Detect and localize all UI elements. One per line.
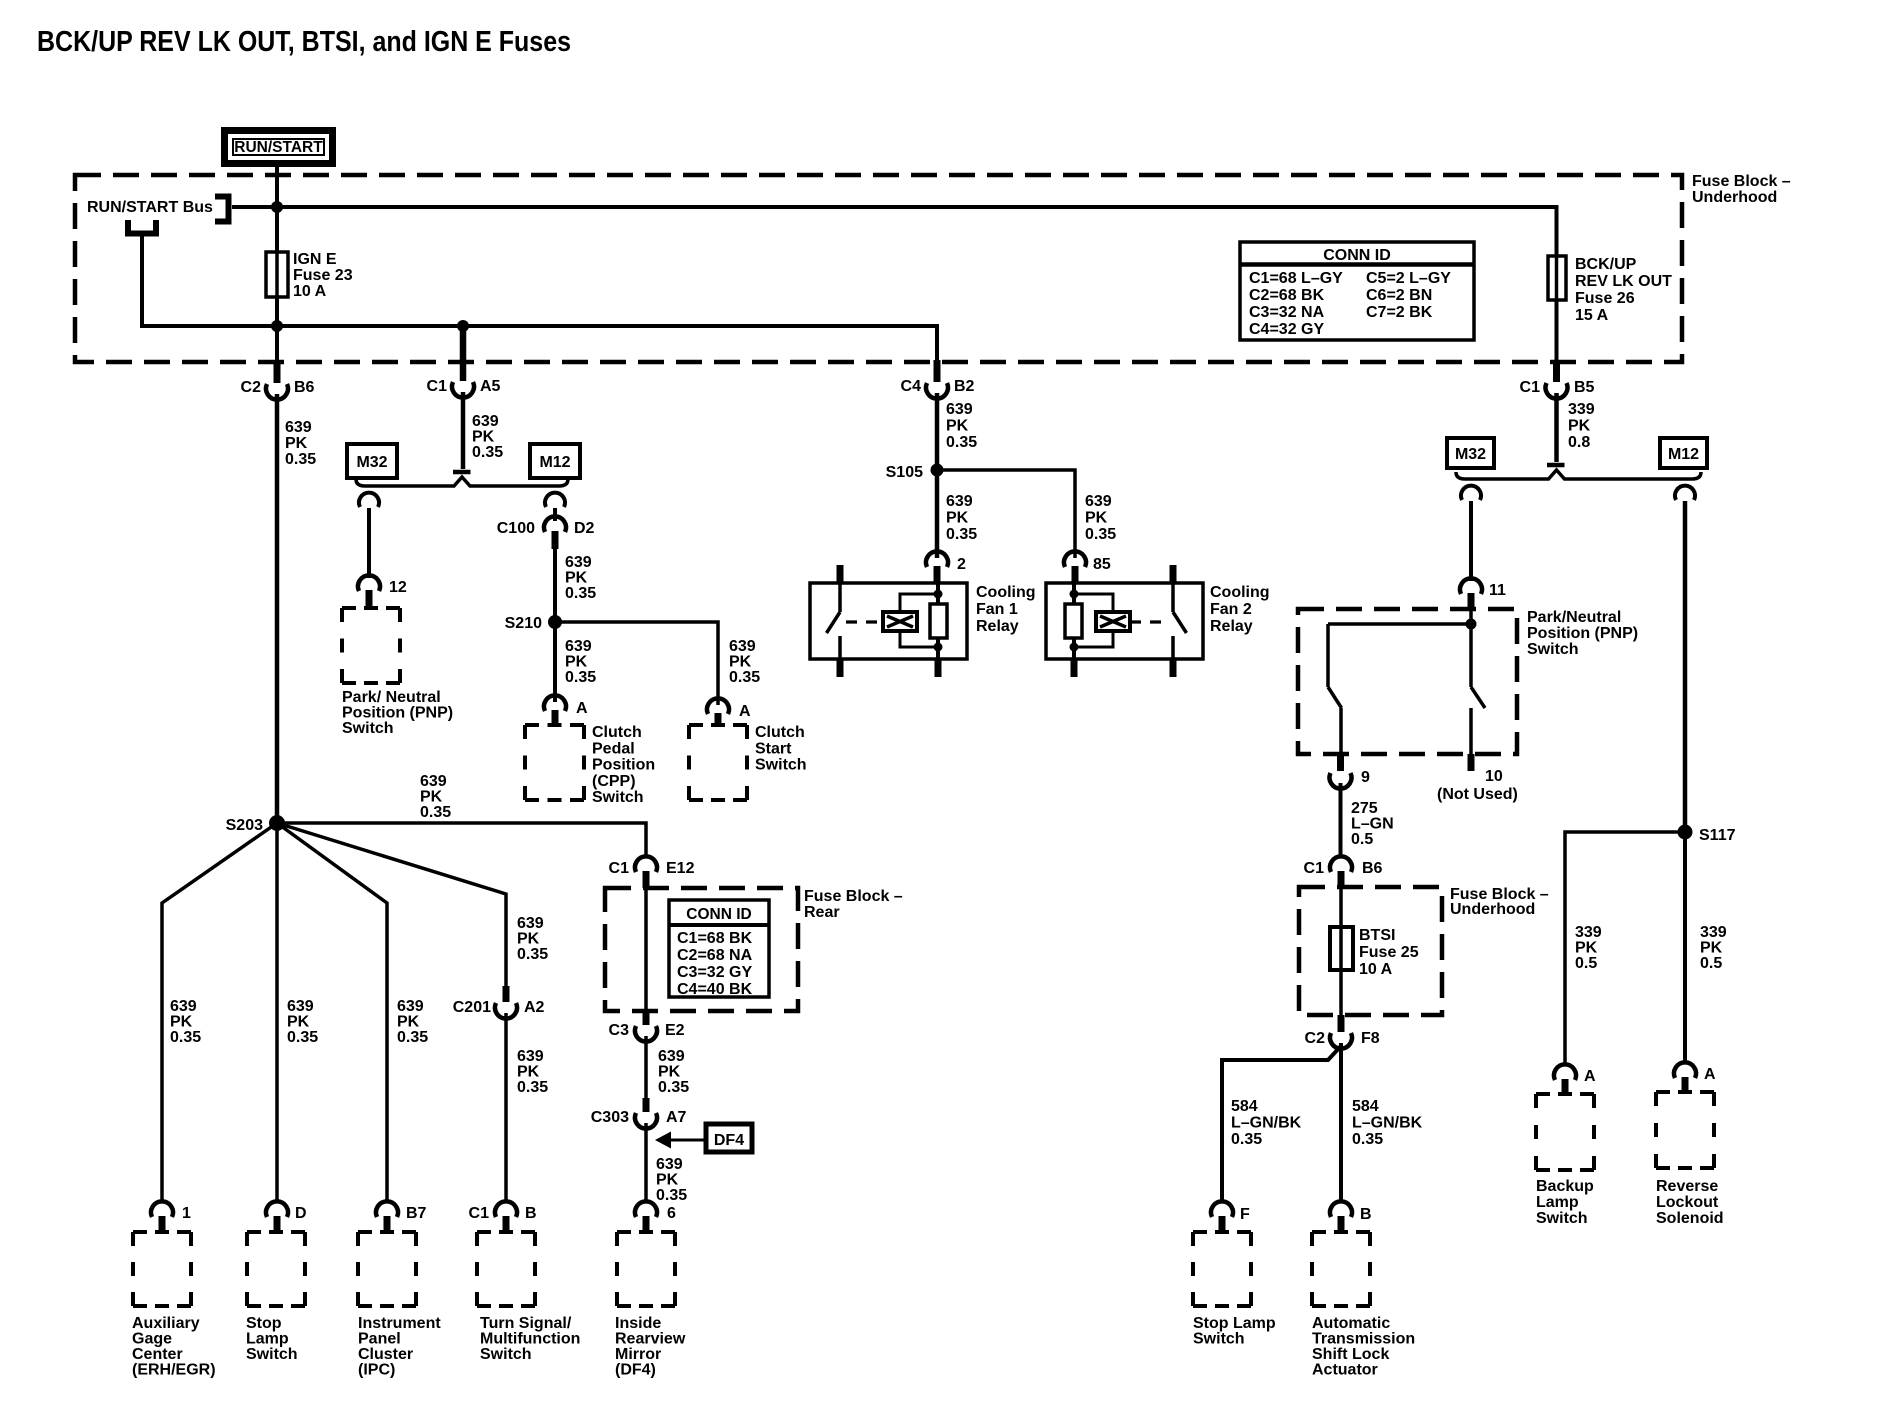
svg-text:B6: B6 <box>1362 860 1383 877</box>
fan1 relay switch pin stub top <box>837 565 844 583</box>
svg-text:Fan 2: Fan 2 <box>1210 601 1252 618</box>
svg-text:Rearview: Rearview <box>615 1331 686 1348</box>
svg-text:10 A: 10 A <box>1359 961 1393 978</box>
wire S105 to cooling fan 2 relay <box>937 470 1075 558</box>
svg-text:PK: PK <box>170 1014 193 1031</box>
svg-text:Actuator: Actuator <box>1312 1362 1378 1379</box>
svg-text:RUN/START Bus: RUN/START Bus <box>87 199 213 216</box>
svg-text:E2: E2 <box>665 1022 685 1039</box>
wire C201 to turn signal switch <box>504 1013 508 1202</box>
svg-text:REV LK OUT: REV LK OUT <box>1575 273 1672 290</box>
svg-text:Fuse Block –: Fuse Block – <box>804 888 903 905</box>
svg-text:0.35: 0.35 <box>472 444 503 461</box>
connector A (reverse lockout solenoid) <box>1674 1062 1696 1078</box>
svg-text:Pedal: Pedal <box>592 740 635 757</box>
connector pin 9 <box>1329 773 1351 789</box>
svg-text:C7=2 BK: C7=2 BK <box>1366 304 1433 321</box>
svg-text:PK: PK <box>729 654 752 671</box>
svg-text:Reverse: Reverse <box>1656 1178 1718 1195</box>
CONN ID table (rear) <box>669 900 769 997</box>
svg-text:0.8: 0.8 <box>1568 434 1590 451</box>
wire branch F8 to stop lamp switch <box>1222 1046 1341 1202</box>
svg-text:Transmission: Transmission <box>1312 1331 1415 1348</box>
instrument panel cluster box <box>358 1232 416 1306</box>
fuse BTSI Fuse 25 10A <box>1330 927 1353 970</box>
wire end foot at brace M32/M12 <box>453 470 471 475</box>
svg-text:0.35: 0.35 <box>1085 526 1116 543</box>
svg-text:Clutch: Clutch <box>592 724 642 741</box>
svg-text:B: B <box>1360 1206 1372 1223</box>
svg-text:Fuse 26: Fuse 26 <box>1575 290 1635 307</box>
svg-text:639: 639 <box>1085 493 1112 510</box>
svg-text:C6=2 BN: C6=2 BN <box>1366 287 1432 304</box>
cooling fan 1 relay box <box>810 583 967 659</box>
svg-text:Position: Position <box>592 757 655 774</box>
svg-text:PK: PK <box>565 570 588 587</box>
fan1 relay coil <box>936 583 940 604</box>
fuse block underhood (BTSI) dashed box <box>1299 887 1442 1015</box>
svg-text:639: 639 <box>287 998 314 1015</box>
svg-text:M32: M32 <box>356 454 387 471</box>
wire 639 PK to S203 <box>275 394 280 818</box>
svg-text:Automatic: Automatic <box>1312 1315 1390 1332</box>
splice S105 <box>931 464 944 477</box>
connector A (CPP switch) <box>544 695 566 711</box>
fan1 relay switch <box>827 583 841 659</box>
PNP internal junction <box>1466 619 1477 630</box>
DF4 arrow <box>670 1139 706 1142</box>
svg-text:Lamp: Lamp <box>1536 1194 1579 1211</box>
svg-text:PK: PK <box>1085 510 1108 527</box>
svg-text:Mirror: Mirror <box>615 1346 661 1363</box>
wire pin 9 to C1 B6 <box>1339 783 1343 858</box>
pin 9 stub <box>1337 754 1344 771</box>
junction lower feed to C1 A5 <box>457 320 469 332</box>
branch hook right (M12 side) <box>545 493 565 507</box>
svg-text:A: A <box>576 700 588 717</box>
svg-text:Switch: Switch <box>1536 1210 1588 1227</box>
svg-text:C1=68 BK: C1=68 BK <box>677 930 753 947</box>
svg-text:Rear: Rear <box>804 904 840 921</box>
svg-text:Underhood: Underhood <box>1450 901 1535 918</box>
svg-text:0.35: 0.35 <box>287 1029 318 1046</box>
svg-text:9: 9 <box>1361 769 1370 786</box>
svg-text:Relay: Relay <box>1210 618 1253 635</box>
svg-text:639: 639 <box>658 1048 685 1065</box>
fan2 relay coil <box>1072 583 1076 604</box>
svg-text:C2=68 BK: C2=68 BK <box>1249 287 1325 304</box>
svg-text:6: 6 <box>667 1205 676 1222</box>
clutch start switch box <box>689 725 747 800</box>
takeout M12 box (left) <box>530 444 580 478</box>
svg-text:Switch: Switch <box>1527 641 1579 658</box>
connector pin 12 <box>358 575 380 591</box>
fan1 relay coil loop <box>900 594 938 647</box>
svg-text:Auxiliary: Auxiliary <box>132 1315 200 1332</box>
connector C4 B2 <box>934 360 941 382</box>
connector pin B7 (IPC) <box>376 1201 398 1217</box>
svg-text:0.35: 0.35 <box>397 1029 428 1046</box>
svg-text:S105: S105 <box>886 464 923 481</box>
svg-text:B: B <box>525 1205 537 1222</box>
svg-text:Center: Center <box>132 1346 183 1363</box>
svg-text:C1: C1 <box>1304 860 1325 877</box>
branch hook (right M32) <box>1461 486 1481 500</box>
connector C2 F8 <box>1338 1015 1345 1032</box>
svg-text:Switch: Switch <box>342 720 394 737</box>
svg-text:639: 639 <box>420 773 447 790</box>
svg-text:C2: C2 <box>1305 1030 1326 1047</box>
fan1 relay dashed actuator link <box>846 620 883 623</box>
fuse block - underhood (dashed boundary) <box>75 175 1682 362</box>
svg-text:M32: M32 <box>1455 446 1486 463</box>
svg-text:PK: PK <box>658 1064 681 1081</box>
svg-text:E12: E12 <box>666 860 695 877</box>
fan2 relay crossed box <box>1096 612 1130 631</box>
svg-text:639: 639 <box>517 1048 544 1065</box>
svg-text:Switch: Switch <box>1193 1331 1245 1348</box>
svg-text:CONN ID: CONN ID <box>686 906 751 923</box>
svg-text:(IPC): (IPC) <box>358 1362 395 1379</box>
svg-text:Underhood: Underhood <box>1692 189 1777 206</box>
wire from RUN/START box down through IGN E fuse <box>275 164 279 364</box>
connector C1 E12 <box>635 856 657 872</box>
svg-text:C100: C100 <box>497 520 535 537</box>
svg-text:Instrument: Instrument <box>358 1315 441 1332</box>
fan2 relay dashed actuator link <box>1130 620 1167 623</box>
connector C1 B6 (BTSI fuse block) <box>1330 856 1352 872</box>
svg-text:Position (PNP): Position (PNP) <box>1527 625 1638 642</box>
svg-text:(DF4): (DF4) <box>615 1362 656 1379</box>
wire to PNP switch pin 12 <box>367 508 371 578</box>
svg-text:Panel: Panel <box>358 1331 401 1348</box>
svg-text:PK: PK <box>420 789 443 806</box>
svg-text:0.35: 0.35 <box>565 585 596 602</box>
RUN/START power feed box <box>225 131 333 164</box>
svg-text:0.35: 0.35 <box>420 804 451 821</box>
fan2 relay switch <box>1173 583 1187 659</box>
cooling fan 2 relay box <box>1046 583 1203 659</box>
svg-text:0.35: 0.35 <box>285 451 316 468</box>
svg-text:A5: A5 <box>480 378 501 395</box>
svg-text:10: 10 <box>1485 768 1503 785</box>
svg-text:D: D <box>295 1205 307 1222</box>
svg-text:0.35: 0.35 <box>565 669 596 686</box>
svg-text:C5=2 L–GY: C5=2 L–GY <box>1366 270 1451 287</box>
svg-text:339: 339 <box>1700 924 1727 941</box>
svg-text:BCK/UP REV LK OUT, BTSI, and I: BCK/UP REV LK OUT, BTSI, and IGN E Fuses <box>37 26 571 58</box>
reverse lockout solenoid box <box>1656 1092 1714 1168</box>
svg-text:Multifunction: Multifunction <box>480 1331 580 1348</box>
connector A (backup lamp switch) <box>1554 1064 1576 1080</box>
svg-text:C3: C3 <box>609 1022 630 1039</box>
svg-text:Lamp: Lamp <box>246 1331 289 1348</box>
wire S203 to fuse block rear <box>277 823 646 858</box>
svg-text:B7: B7 <box>406 1205 427 1222</box>
wire S117 to reverse lockout solenoid <box>1683 839 1687 1062</box>
harness brace M32/M12 (right) <box>1456 470 1701 479</box>
svg-text:PK: PK <box>285 435 308 452</box>
svg-text:PK: PK <box>397 1014 420 1031</box>
svg-text:B2: B2 <box>954 378 975 395</box>
svg-text:C3=32 NA: C3=32 NA <box>1249 304 1325 321</box>
svg-text:Stop Lamp: Stop Lamp <box>1193 1315 1276 1332</box>
svg-text:Switch: Switch <box>246 1346 298 1363</box>
svg-text:Cooling: Cooling <box>976 584 1036 601</box>
svg-text:S117: S117 <box>1699 827 1736 844</box>
RUN/START Bus bracket <box>215 197 229 222</box>
connector pin 11 <box>1460 578 1482 594</box>
clutch pedal position switch box <box>525 725 584 800</box>
svg-text:PK: PK <box>517 1064 540 1081</box>
svg-text:1: 1 <box>182 1205 191 1222</box>
svg-text:C201: C201 <box>453 999 491 1016</box>
svg-text:B5: B5 <box>1574 379 1595 396</box>
connector B (shift lock actuator) <box>1330 1201 1352 1217</box>
backup lamp switch box <box>1536 1094 1594 1170</box>
svg-text:0.35: 0.35 <box>517 946 548 963</box>
svg-text:A: A <box>1584 1068 1596 1085</box>
wire F8 to automatic transmission shift lock actuator <box>1339 1043 1343 1202</box>
fan2 relay bottom stubs <box>1071 659 1078 677</box>
wire S105 to cooling fan 1 relay <box>935 476 940 558</box>
svg-text:639: 639 <box>565 638 592 655</box>
svg-text:M12: M12 <box>1668 446 1699 463</box>
connector pin 2 (fan 1 relay) <box>926 551 948 567</box>
svg-text:339: 339 <box>1568 401 1595 418</box>
svg-text:Solenoid: Solenoid <box>1656 1210 1724 1227</box>
fan2 relay switch pin stub top <box>1170 565 1177 583</box>
fan1 relay bottom stubs <box>837 659 844 677</box>
svg-text:0.35: 0.35 <box>1352 1131 1383 1148</box>
connector pin 85 (fan 2 relay) <box>1064 551 1086 567</box>
splice S210 <box>548 615 562 629</box>
svg-text:RUN/START: RUN/START <box>234 139 323 156</box>
auxiliary gage center box <box>133 1232 191 1306</box>
branch hook left (M32 side) <box>359 493 379 507</box>
PNP switch blade to pin 9 <box>1328 624 1342 754</box>
svg-text:S203: S203 <box>226 817 263 834</box>
svg-text:Clutch: Clutch <box>755 724 805 741</box>
svg-text:F: F <box>1240 1206 1250 1223</box>
svg-text:Switch: Switch <box>592 789 644 806</box>
connector C2 B6 <box>274 362 281 383</box>
svg-text:639: 639 <box>397 998 424 1015</box>
svg-text:C3=32 GY: C3=32 GY <box>677 964 752 981</box>
svg-text:A: A <box>739 703 751 720</box>
svg-text:CONN ID: CONN ID <box>1323 247 1391 264</box>
junction IGN E to lower feed <box>271 320 283 332</box>
svg-text:584: 584 <box>1231 1098 1258 1115</box>
svg-text:2: 2 <box>957 556 966 573</box>
svg-text:PK: PK <box>517 931 540 948</box>
svg-text:PK: PK <box>946 510 969 527</box>
svg-text:584: 584 <box>1352 1098 1379 1115</box>
svg-text:PK: PK <box>287 1014 310 1031</box>
wire C1 B5 to splice brace (right) <box>1554 393 1559 462</box>
svg-text:IGN E: IGN E <box>293 251 337 268</box>
svg-text:0.35: 0.35 <box>517 1079 548 1096</box>
RUN/START Bus takeout bracket <box>128 220 156 234</box>
wire from bus bracket down and across <box>142 231 937 362</box>
svg-text:339: 339 <box>1575 924 1602 941</box>
fan2 relay coil loop <box>1074 594 1113 647</box>
svg-text:A2: A2 <box>524 999 545 1016</box>
connector A (clutch start switch) <box>707 698 729 714</box>
svg-text:BCK/UP: BCK/UP <box>1575 256 1637 273</box>
wire S117 to backup lamp switch <box>1565 832 1685 1064</box>
svg-text:PK: PK <box>946 418 969 435</box>
svg-text:0.5: 0.5 <box>1351 831 1373 848</box>
takeout M32 box (right) <box>1447 438 1494 468</box>
connector pin 1 (auxiliary gage center) <box>151 1201 173 1217</box>
wire C100 to S210 <box>553 549 557 616</box>
connector C1 B5 <box>1553 362 1560 382</box>
svg-text:11: 11 <box>1489 582 1506 599</box>
svg-text:DF4: DF4 <box>714 1132 744 1149</box>
svg-text:(Not Used): (Not Used) <box>1437 786 1518 803</box>
fan1 relay crossed box <box>883 612 917 631</box>
svg-text:10 A: 10 A <box>293 283 327 300</box>
svg-text:12: 12 <box>389 579 407 596</box>
svg-text:PK: PK <box>656 1172 679 1189</box>
svg-text:Relay: Relay <box>976 618 1019 635</box>
fuse BCK/UP REV LK OUT Fuse 26 15A <box>1548 256 1566 300</box>
turn signal / multifunction switch box <box>477 1232 535 1306</box>
svg-text:D2: D2 <box>574 520 595 537</box>
svg-text:Backup: Backup <box>1536 1178 1594 1195</box>
pin 10 stub (not used) <box>1468 754 1475 771</box>
svg-text:Fuse Block –: Fuse Block – <box>1692 173 1791 190</box>
connector C3 E2 <box>643 1012 650 1025</box>
wire end foot at right brace <box>1547 463 1565 468</box>
svg-text:Fuse 25: Fuse 25 <box>1359 944 1419 961</box>
svg-text:A: A <box>1704 1066 1716 1083</box>
takeout M32 box (left) <box>347 444 397 478</box>
inside rearview mirror box <box>617 1232 675 1306</box>
PNP internal wire from pin 11 <box>1469 609 1473 624</box>
svg-text:85: 85 <box>1093 556 1111 573</box>
takeout M12 box (right) <box>1660 438 1707 468</box>
svg-text:639: 639 <box>472 413 499 430</box>
svg-text:Cluster: Cluster <box>358 1346 413 1363</box>
svg-text:(ERH/EGR): (ERH/EGR) <box>132 1362 216 1379</box>
svg-text:(CPP): (CPP) <box>592 773 636 790</box>
svg-text:C303: C303 <box>591 1109 629 1126</box>
svg-text:PK: PK <box>1700 940 1723 957</box>
svg-text:C1: C1 <box>609 860 630 877</box>
svg-text:639: 639 <box>946 401 973 418</box>
branch hook (right M12) <box>1675 486 1695 500</box>
svg-text:0.5: 0.5 <box>1700 955 1722 972</box>
svg-text:PK: PK <box>1575 940 1598 957</box>
connector C1 A5 <box>460 326 467 381</box>
stop lamp switch box (right) <box>1193 1232 1251 1306</box>
automatic transmission shift lock actuator box <box>1312 1232 1370 1306</box>
svg-text:275: 275 <box>1351 800 1378 817</box>
svg-text:639: 639 <box>729 638 756 655</box>
svg-text:Cooling: Cooling <box>1210 584 1270 601</box>
svg-text:C4: C4 <box>901 378 922 395</box>
svg-text:PK: PK <box>1568 418 1591 435</box>
svg-text:BTSI: BTSI <box>1359 927 1395 944</box>
svg-text:C1=68 L–GY: C1=68 L–GY <box>1249 270 1343 287</box>
connector C303 A7 <box>643 1098 650 1112</box>
connector pin D (stop lamp switch) <box>266 1201 288 1217</box>
PNP switch blade to pin 10 <box>1471 624 1485 754</box>
wire C4 B2 to S105 <box>935 393 940 464</box>
wire through BTSI fuse <box>1339 888 1343 1015</box>
svg-text:Position (PNP): Position (PNP) <box>342 705 453 722</box>
svg-text:0.35: 0.35 <box>1231 1131 1262 1148</box>
svg-text:639: 639 <box>285 419 312 436</box>
svg-text:0.35: 0.35 <box>656 1187 687 1204</box>
svg-text:C2=68 NA: C2=68 NA <box>677 947 753 964</box>
connector C201 A2 <box>503 986 510 1002</box>
svg-text:0.35: 0.35 <box>946 434 977 451</box>
svg-text:C1: C1 <box>1520 379 1541 396</box>
wire S203 to instrument panel cluster <box>277 823 387 1202</box>
wire RUN/START bus (horizontal) <box>232 207 1557 364</box>
svg-text:0.5: 0.5 <box>1575 955 1597 972</box>
wire A7 to inside rearview mirror <box>644 1123 648 1202</box>
fuse IGN E Fuse 23 10A <box>266 252 288 297</box>
svg-text:Park/ Neutral: Park/ Neutral <box>342 689 441 706</box>
connector F (stop lamp switch) <box>1211 1201 1233 1217</box>
svg-text:Switch: Switch <box>755 757 807 774</box>
svg-text:S210: S210 <box>505 615 542 632</box>
svg-text:L–GN/BK: L–GN/BK <box>1352 1115 1423 1132</box>
svg-text:C1: C1 <box>427 378 448 395</box>
DF4 reference box <box>706 1124 752 1152</box>
junction on bus <box>271 201 283 213</box>
svg-text:A7: A7 <box>666 1109 687 1126</box>
svg-text:0.35: 0.35 <box>946 526 977 543</box>
svg-text:PK: PK <box>565 654 588 671</box>
svg-text:15 A: 15 A <box>1575 307 1609 324</box>
svg-text:PK: PK <box>472 429 495 446</box>
svg-text:Inside: Inside <box>615 1315 661 1332</box>
svg-text:L–GN/BK: L–GN/BK <box>1231 1115 1302 1132</box>
fuse block - rear dashed box <box>605 888 798 1011</box>
svg-text:639: 639 <box>946 493 973 510</box>
wire through fuse block rear <box>644 888 648 1012</box>
svg-text:639: 639 <box>170 998 197 1015</box>
park/neutral position switch (left) box <box>342 608 400 683</box>
svg-text:Shift Lock: Shift Lock <box>1312 1346 1389 1363</box>
wire M12 branch down to S117 <box>1683 501 1688 826</box>
wire S203 to C201 <box>277 823 506 989</box>
svg-text:Fan 1: Fan 1 <box>976 601 1018 618</box>
harness brace M32/M12 (left) <box>356 477 568 486</box>
wire M12 branch to C100 <box>553 508 557 521</box>
svg-text:Lockout: Lockout <box>1656 1194 1719 1211</box>
wire to PNP pin 11 <box>1469 501 1473 581</box>
wire S210 to clutch start switch <box>555 622 718 705</box>
wire S210 to CPP switch <box>553 628 557 702</box>
svg-text:Start: Start <box>755 740 792 757</box>
connector pin 6 (inside rearview mirror) <box>635 1201 657 1217</box>
CONN ID table (underhood) <box>1240 242 1474 340</box>
splice S203 <box>269 815 285 831</box>
svg-text:Gage: Gage <box>132 1331 172 1348</box>
svg-text:L–GN: L–GN <box>1351 816 1394 833</box>
svg-text:0.35: 0.35 <box>729 669 760 686</box>
connector C1 B (turn signal switch) <box>495 1201 517 1217</box>
svg-text:C4=32 GY: C4=32 GY <box>1249 321 1324 338</box>
svg-text:0.35: 0.35 <box>170 1029 201 1046</box>
stop lamp switch box (left) <box>247 1232 305 1306</box>
